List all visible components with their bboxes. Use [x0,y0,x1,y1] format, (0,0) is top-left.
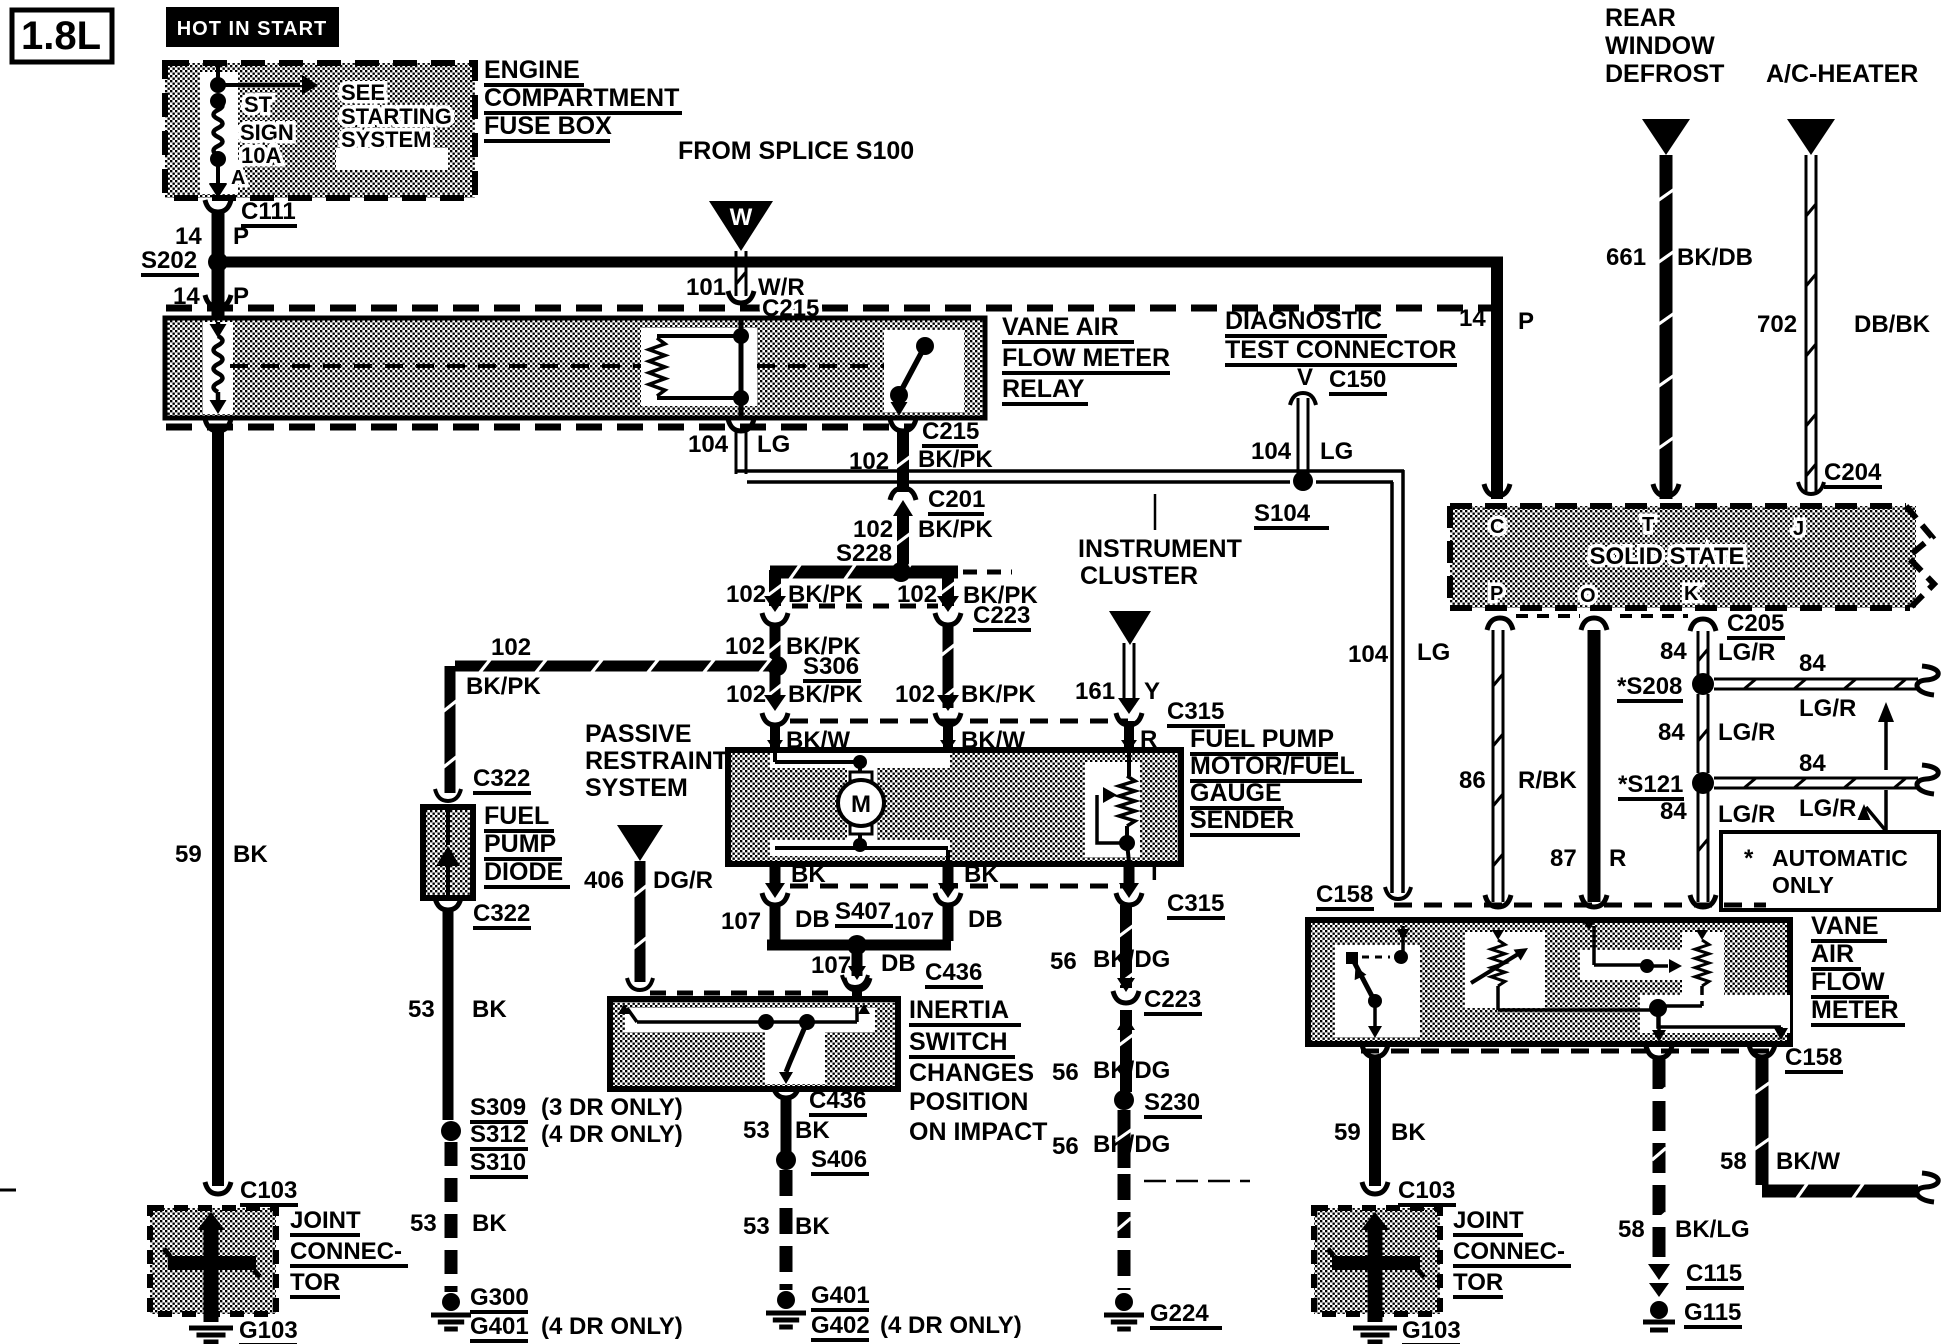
ground G115 [1643,1299,1742,1330]
fuel pump motor feed rails [775,753,948,862]
dashed boundary at fuel pump [790,719,1128,724]
svg-text:VANE: VANE [1811,912,1879,940]
connector C215 (relay pin, 104 LG) [728,419,754,431]
automatic only note [1744,845,1908,898]
joint connector box right [1314,1208,1440,1314]
svg-text:W: W [730,204,753,231]
wire 56 BK/DG mid [1117,1010,1135,1092]
wire label 14 [173,283,200,310]
wire label 102 [726,681,766,708]
svg-text:A: A [231,167,245,189]
svg-text:J: J [1793,518,1804,540]
wire label DB [881,950,916,977]
svg-text:BK/PK: BK/PK [788,681,863,708]
wire label LG/R [1718,639,1775,666]
svg-text:161: 161 [1075,678,1115,705]
splice S104 [1155,471,1329,530]
wire label DB/BK [1854,311,1931,338]
wire label 87 [1550,845,1577,872]
connector right (to PRS) [935,695,961,725]
svg-text:DB/BK: DB/BK [1854,311,1931,338]
svg-text:T: T [1642,514,1654,536]
connector C223 left [762,596,788,625]
wire label BK/PK [963,582,1038,609]
wire 102 BK/PK right lower [941,625,956,708]
wire 84 LG/R lower [1698,792,1708,902]
joint connector caption left [290,1207,408,1297]
relay resistor [649,336,741,398]
fuel pump rails white channels [770,753,950,856]
inertia switch contacts [618,1004,870,1030]
svg-text:S406: S406 [811,1146,867,1173]
svg-text:RESTRAINT: RESTRAINT [585,747,728,775]
svg-text:FUEL: FUEL [484,802,549,830]
vane air flow meter box [1308,920,1790,1044]
wire 84 LG/R take-off upper [1714,666,1938,695]
wire R stub [1121,721,1137,752]
wire label BK/DG [1093,1057,1170,1084]
connector C215 (top) [728,291,819,326]
svg-text:C315: C315 [1167,890,1224,917]
splice W from S100 (triangle) [709,201,773,251]
svg-text:BK/DG: BK/DG [1093,946,1170,973]
splice S406 [776,1146,869,1174]
solid state caption [1589,543,1744,570]
fuel gauge sender wiper arrow [1097,787,1124,843]
pin J [1793,518,1804,540]
wire label DB [968,906,1003,933]
fuel gauge sender white channel [1085,762,1140,857]
svg-text:406: 406 [584,867,624,894]
svg-text:DB: DB [968,906,1003,933]
wire label LG/R [1799,695,1856,722]
wire 58 BK/W [1754,1058,1939,1202]
wire fuse to pin A [209,159,227,198]
wire label R [1140,726,1157,753]
svg-text:W/R: W/R [758,274,805,301]
dashed link C223 [792,604,938,609]
svg-text:BK: BK [472,996,507,1023]
junction dot [210,93,226,109]
svg-text:C: C [1490,516,1504,538]
splice S202 [141,247,228,275]
wire label LG/R [1718,719,1775,746]
svg-text:S309: S309 [470,1094,526,1121]
wire label BK [472,1210,507,1237]
ground label G300 [470,1284,529,1312]
wire label 56 [1052,1133,1079,1160]
svg-text:BK: BK [795,1117,830,1144]
svg-text:58: 58 [1720,1148,1747,1175]
connector C158 label [1316,881,1374,909]
wire label T [1147,859,1162,886]
fuel gauge sender resistor [1119,753,1135,862]
svg-text:LG: LG [1417,639,1450,666]
pin label A [231,167,245,189]
corner 104 LG [735,434,737,471]
svg-text:CONNEC-: CONNEC- [1453,1238,1565,1265]
svg-text:M: M [851,791,871,818]
connector C103 right [1362,1177,1456,1205]
caption REAR WINDOW DEFROST [1605,4,1724,88]
ground G103 left [189,1317,298,1344]
svg-text:104: 104 [688,431,729,458]
wire label 14 [1459,305,1486,332]
C158 lower dashed [1361,1049,1770,1054]
svg-text:53: 53 [743,1117,770,1144]
svg-text:87: 87 [1550,845,1577,872]
wire label 84 [1799,750,1826,777]
connector below left BK [762,893,788,905]
svg-text:(4 DR ONLY): (4 DR ONLY) [880,1312,1022,1339]
caption FROM SPLICE S100 [678,137,914,165]
wire 86 R/BK [1493,630,1503,902]
svg-text:DG/R: DG/R [653,867,713,894]
svg-text:C103: C103 [240,1177,297,1204]
svg-text:CLUSTER: CLUSTER [1080,562,1198,590]
svg-text:COMPARTMENT: COMPARTMENT [484,84,679,112]
svg-text:84: 84 [1799,750,1826,777]
joint connector cross left [164,1212,260,1322]
wire label BK [795,1117,830,1144]
ground G103 right [1353,1317,1461,1344]
svg-text:C201: C201 [928,486,985,513]
wire label 661 [1606,244,1646,271]
svg-text:DIAGNOSTIC: DIAGNOSTIC [1225,307,1382,335]
svg-text:SYSTEM: SYSTEM [585,774,688,802]
splice S407 label [835,898,893,926]
svg-text:G402: G402 [811,1312,870,1339]
wire label 107 [811,952,851,979]
svg-text:VANE AIR: VANE AIR [1002,313,1119,341]
wire 161 Y [1124,643,1134,705]
ground label G402 (4 DR ONLY) [811,1312,1022,1340]
wire label BK/PK [961,681,1036,708]
pin label V [1297,364,1313,391]
harness dashed boundary (upper) [166,305,1496,312]
vafm wire3 white halo [1580,950,1700,980]
svg-text:BK: BK [795,1213,830,1240]
svg-text:SENDER: SENDER [1190,806,1294,834]
splice S306 [767,653,861,681]
thin dashed mark [0,1181,1250,1190]
svg-text:G103: G103 [1402,1317,1461,1344]
wire 14 P (S202 to relay) [205,262,231,318]
white box in fuse box [336,148,448,170]
wire label BK/PK [466,673,541,700]
svg-text:WINDOW: WINDOW [1605,32,1715,60]
splice S230 [1114,1089,1202,1117]
svg-text:RELAY: RELAY [1002,375,1085,403]
vafm entry 1 [1394,926,1410,964]
wire label BK [233,841,268,868]
svg-text:STARTING: STARTING [341,104,452,129]
wire label BK/W [1776,1148,1840,1175]
wire 84 LG/R middle [1698,694,1708,773]
svg-text:REAR: REAR [1605,4,1676,32]
svg-text:G224: G224 [1150,1300,1209,1327]
fuse F (ST SIGN 10A) white halo [200,72,238,194]
ground G224 [1104,1293,1222,1329]
wire label BK/W [786,727,850,754]
diagnostic caption [1225,307,1457,365]
svg-text:AUTOMATIC: AUTOMATIC [1772,845,1908,871]
ground G300/G401 [431,1293,471,1329]
svg-text:SWITCH: SWITCH [909,1028,1008,1056]
svg-text:102: 102 [726,581,766,608]
pin C [1490,516,1504,538]
svg-text:C115: C115 [1686,1260,1742,1287]
wire label BK [791,861,826,888]
harness dashed boundary (below relay) [166,424,912,431]
wire label Y [1144,678,1160,705]
wire label BK/PK [788,581,863,608]
svg-text:BK: BK [472,1210,507,1237]
diode caption [484,802,570,887]
svg-text:ONLY: ONLY [1772,872,1834,898]
vafm caption [1811,912,1905,1025]
ground label G401 (4 DR ONLY) [470,1313,683,1341]
svg-text:G300: G300 [470,1284,529,1311]
S228 dashed stub right [963,570,1012,575]
svg-text:TOR: TOR [290,1269,340,1296]
motor M [838,762,884,845]
svg-text:BK: BK [233,841,268,868]
svg-text:C205: C205 [1727,610,1784,637]
wire 104 LG from C150 [1298,398,1308,477]
ground G401/G402 [766,1291,806,1327]
svg-text:SIGN: SIGN [240,120,294,145]
wire 101 W/R [736,251,746,296]
connector C204 label [1824,459,1882,487]
wire label BK [1391,1119,1426,1146]
svg-text:JOINT: JOINT [1453,1207,1524,1234]
svg-text:*: * [1744,845,1754,872]
svg-text:102: 102 [895,681,935,708]
svg-text:DIODE: DIODE [484,858,563,886]
wire label LG [1417,639,1450,666]
wire label BK/DB [1677,244,1753,271]
connector C436 upper [844,959,983,990]
relay node dot [733,328,749,344]
wire 702 DB/BK [1806,155,1816,492]
connector C436 lower [773,1086,867,1115]
see starting system note [341,80,452,152]
fuel pump motor/fuel gauge sender box [728,750,1181,864]
S407 bus bar [767,935,951,955]
svg-text:56: 56 [1052,1133,1079,1160]
svg-text:ON IMPACT: ON IMPACT [909,1118,1047,1146]
connector C158 lower label [1785,1044,1843,1072]
HOT IN START banner [166,7,339,47]
svg-text:S306: S306 [803,653,859,680]
fuse value 10A [241,143,281,168]
vafm resistor2 white halo [1465,932,1545,1008]
svg-text:84: 84 [1658,719,1685,746]
joint connector caption right [1453,1207,1571,1297]
wire label R/BK [1518,767,1577,794]
svg-text:S202: S202 [141,247,197,274]
svg-text:MOTOR/FUEL: MOTOR/FUEL [1190,752,1355,780]
svg-text:(4 DR ONLY): (4 DR ONLY) [541,1121,683,1148]
svg-text:86: 86 [1459,767,1486,794]
wire label P [233,283,249,310]
svg-text:59: 59 [175,841,202,868]
wire 53 BK dashed segs [445,1142,458,1292]
wire label 53 [743,1213,770,1240]
ground label G401 [811,1282,870,1310]
svg-text:BK: BK [1391,1119,1426,1146]
wire label 102 [895,681,935,708]
joint connector box left [150,1208,276,1314]
connector C115 [1648,1260,1744,1297]
junction dot [210,151,226,167]
wire label 53 [408,996,435,1023]
wire label 104 [1251,438,1292,465]
svg-text:S310: S310 [470,1149,526,1176]
diode symbol [436,807,460,898]
relay coil white halo [203,322,233,414]
svg-text:53: 53 [743,1213,770,1240]
svg-text:T: T [1147,859,1162,886]
svg-text:P: P [1490,583,1503,605]
svg-text:S312: S312 [470,1121,526,1148]
wire 107 DB center [852,945,863,976]
svg-text:C103: C103 [1398,1177,1455,1204]
wire label LG/R [1718,801,1775,828]
relay wire W/R through [739,320,744,416]
connector C150 [1290,366,1387,405]
wire 102 BK/PK left lower [768,666,783,700]
svg-text:K: K [1684,583,1699,605]
wire label 84 [1660,798,1687,825]
svg-text:C315: C315 [1167,698,1224,725]
fuse box caption ENGINE COMPARTMENT FUSE BOX [484,56,682,141]
C158 dashed boundary [1394,903,1766,908]
relay resistor white halo [641,328,757,406]
fuel pump exit T [1119,864,1139,898]
arrow to starting system [218,75,318,95]
connector C204 cups [1484,482,1824,496]
svg-text:(4 DR ONLY): (4 DR ONLY) [541,1313,683,1340]
svg-text:PUMP: PUMP [484,830,556,858]
vafm entry 3 [1583,920,1682,973]
svg-text:P: P [1518,308,1534,335]
splice labels S309 S312 S310 [470,1094,683,1177]
wire label BK/PK [788,681,863,708]
svg-text:107: 107 [721,908,761,935]
dashed stubs between C205 [1516,614,1688,618]
wire label LG/R + pointer [1799,790,1886,831]
joint connector cross right [1328,1212,1424,1322]
relay internal dashed link [230,364,893,368]
pin P [1490,583,1503,605]
connector 107 DB cup at inertia [842,975,868,987]
wire 102 BK/PK left branch upper [767,570,783,606]
connector C201 [890,486,985,514]
fuel pump exit BK left [765,864,785,898]
inertia switch blade [779,1022,807,1084]
wire label LG [1320,438,1353,465]
wire label DG/R [653,867,713,894]
svg-text:BK/DG: BK/DG [1093,1057,1170,1084]
C158 cups [1385,887,1716,907]
wire label 58 [1720,1148,1747,1175]
svg-text:102: 102 [849,448,889,475]
svg-text:BK/PK: BK/PK [961,681,1036,708]
wire label BK [795,1213,830,1240]
wire into inertia switch [852,990,862,999]
wire label BK [964,861,999,888]
fuel pump diode box [423,807,473,898]
wire label 14 [175,223,202,250]
svg-text:84: 84 [1660,638,1687,665]
wire label 101 [686,274,726,301]
svg-text:102: 102 [726,681,766,708]
inertia switch box [610,999,898,1089]
wire label 104 [1348,641,1389,668]
svg-text:FLOW METER: FLOW METER [1002,344,1170,372]
wire 53 BK below diode [443,910,454,1120]
wire label P [1518,308,1534,335]
wire label W/R [758,274,805,301]
svg-text:S228: S228 [836,540,892,567]
wire 14 P (fuse to S202) [212,212,225,262]
svg-text:CHANGES: CHANGES [909,1059,1034,1087]
splice S121 [1618,771,1714,799]
svg-text:C111: C111 [241,198,296,225]
svg-text:102: 102 [853,516,893,543]
svg-text:S104: S104 [1254,500,1311,527]
svg-text:HOT IN START: HOT IN START [177,18,328,40]
svg-text:R: R [1609,845,1626,872]
wire label BK [472,996,507,1023]
splice S228 bus bar [770,562,958,582]
svg-text:1.8L: 1.8L [21,14,101,58]
vafm bottom link [1498,999,1788,1040]
wire label 56 [1050,948,1077,975]
wire label 59 [1334,1119,1361,1146]
svg-text:84: 84 [1799,650,1826,677]
vane air flow meter relay box [165,318,985,418]
svg-text:CONNEC-: CONNEC- [290,1238,402,1265]
svg-text:58: 58 [1618,1216,1645,1243]
svg-text:C322: C322 [473,765,530,792]
svg-text:FUEL PUMP: FUEL PUMP [1190,725,1334,753]
wire label 102 [726,581,766,608]
pin T [1642,514,1654,536]
svg-text:LG: LG [757,431,790,458]
wire label 84 [1799,650,1826,677]
wire label BK/PK [918,516,993,543]
relay node dot [733,390,749,406]
svg-text:S230: S230 [1144,1089,1200,1116]
wire BK/W stub right [940,724,956,752]
svg-text:C158: C158 [1316,881,1373,908]
svg-text:*S208: *S208 [1617,673,1682,700]
relay switch white halo [884,330,964,412]
svg-text:S407: S407 [835,898,891,925]
wire 107 DB left [770,905,781,941]
wire 102 BK/PK left mid [768,625,783,662]
svg-text:P: P [233,223,249,250]
power bus down leg to solid state [1491,257,1503,499]
wire 59 BK (relay to C103) [212,432,224,1186]
svg-text:10A: 10A [241,143,281,168]
svg-text:14: 14 [175,223,202,250]
svg-text:102: 102 [491,634,531,661]
fuel pump caption [1190,725,1362,835]
